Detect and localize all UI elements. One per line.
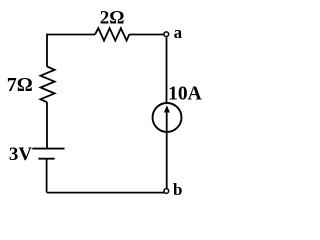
resistor 2Ω (zigzag) [95,28,129,40]
current source arrowhead [164,105,170,112]
svg-text:7Ω: 7Ω [7,74,33,96]
svg-text:3V: 3V [9,144,33,165]
value label 10A [168,83,202,104]
node label a [174,23,183,42]
wire bottom segment [47,192,164,194]
battery 3V negative plate (short) [38,158,54,160]
current source circle [153,103,182,132]
resistor 7Ω (zigzag) [41,67,55,103]
wire top-left segment [47,34,95,36]
value label 7Ω [7,74,33,96]
node b (open terminal) [164,189,169,194]
value label 2Ω [100,8,125,29]
arrow shaft and wire right lower segment [166,109,168,188]
svg-text:a: a [174,23,183,42]
node a (open terminal) [164,32,169,37]
svg-text:b: b [173,180,182,199]
battery 3V positive plate (long) [32,148,64,150]
value label 3V [9,144,33,165]
wire right upper segment [166,37,168,102]
wire left upper segment [46,34,48,67]
wire top-right segment [129,34,164,36]
node label b [173,180,182,199]
svg-text:10A: 10A [168,83,202,104]
wire left lower segment [46,159,48,193]
svg-text:2Ω: 2Ω [100,8,125,29]
wire left middle segment [46,102,48,148]
